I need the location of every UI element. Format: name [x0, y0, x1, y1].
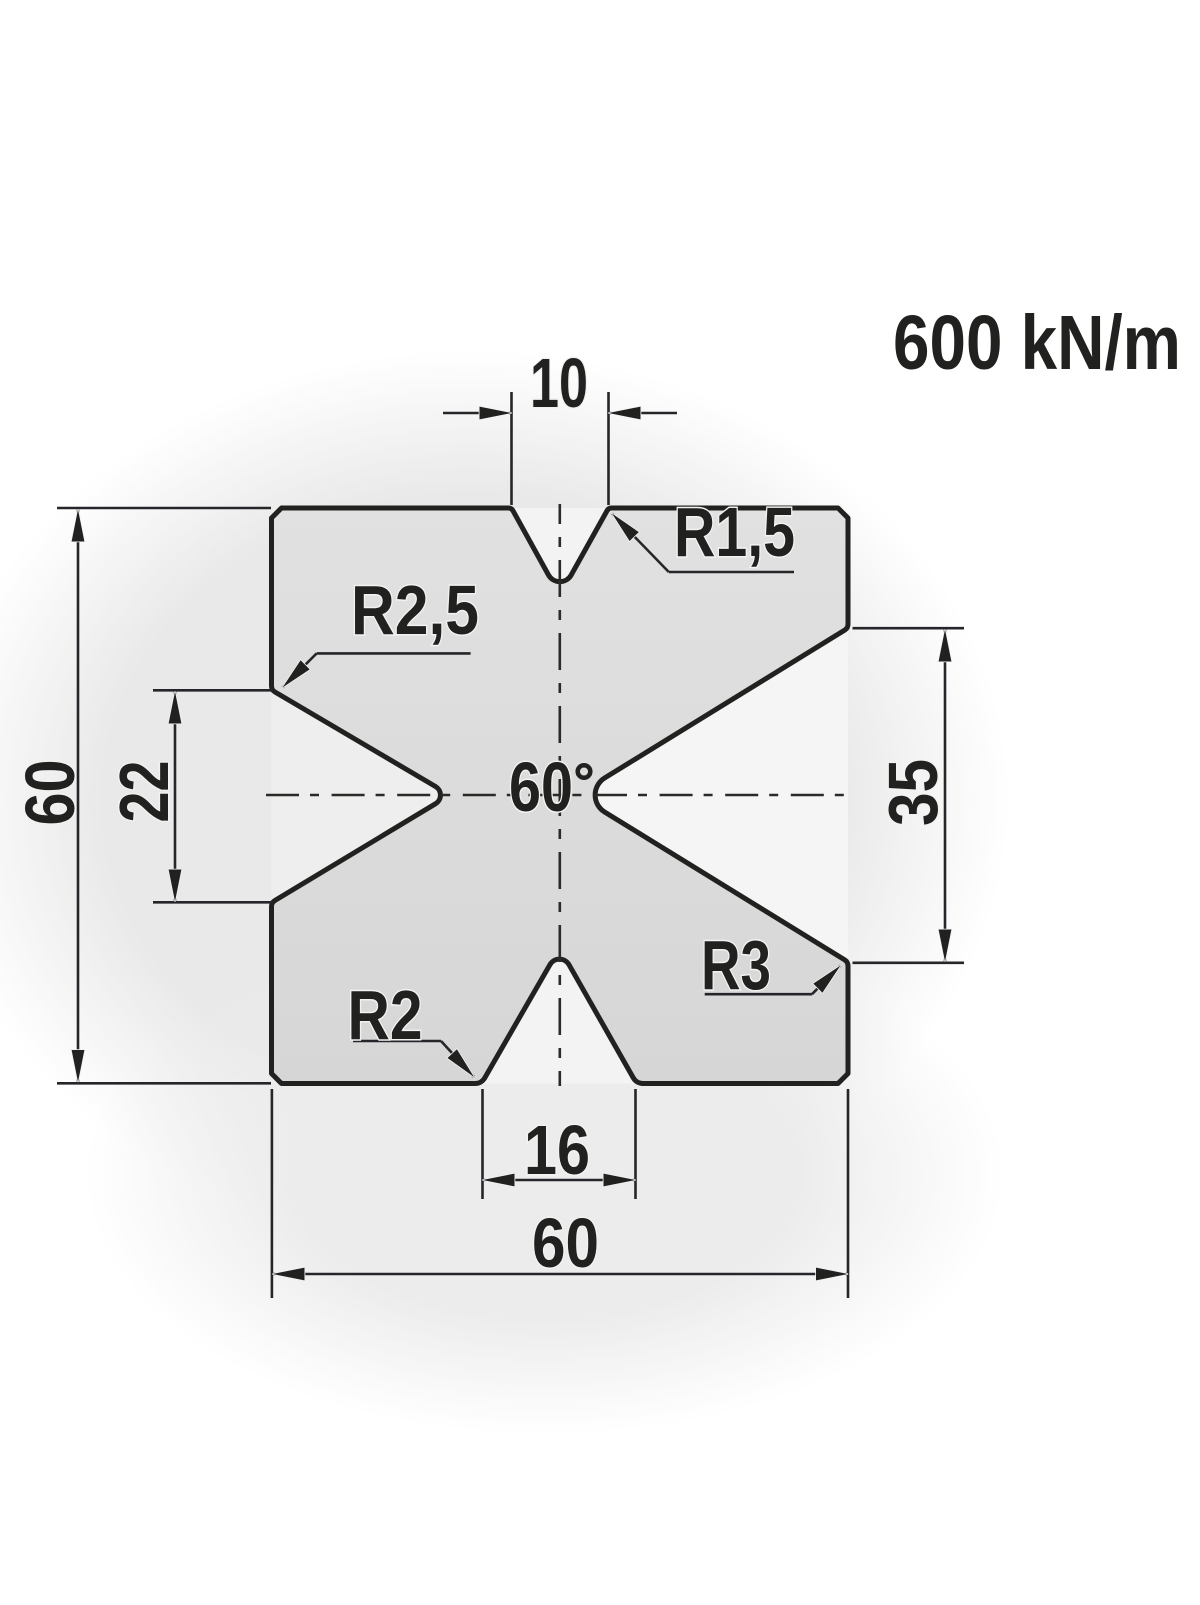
- svg-text:10: 10: [530, 344, 588, 422]
- svg-text:R3: R3: [701, 926, 771, 1004]
- svg-text:60: 60: [509, 748, 573, 826]
- svg-text:35: 35: [874, 759, 952, 826]
- svg-text:60: 60: [11, 760, 89, 826]
- svg-text:R2,5: R2,5: [351, 571, 479, 649]
- svg-text:R2: R2: [348, 976, 423, 1054]
- svg-text:600 kN/m: 600 kN/m: [893, 300, 1181, 386]
- svg-text:16: 16: [524, 1111, 590, 1189]
- svg-text:22: 22: [105, 761, 183, 823]
- svg-text:R1,5: R1,5: [674, 493, 795, 571]
- svg-text:60: 60: [532, 1204, 599, 1282]
